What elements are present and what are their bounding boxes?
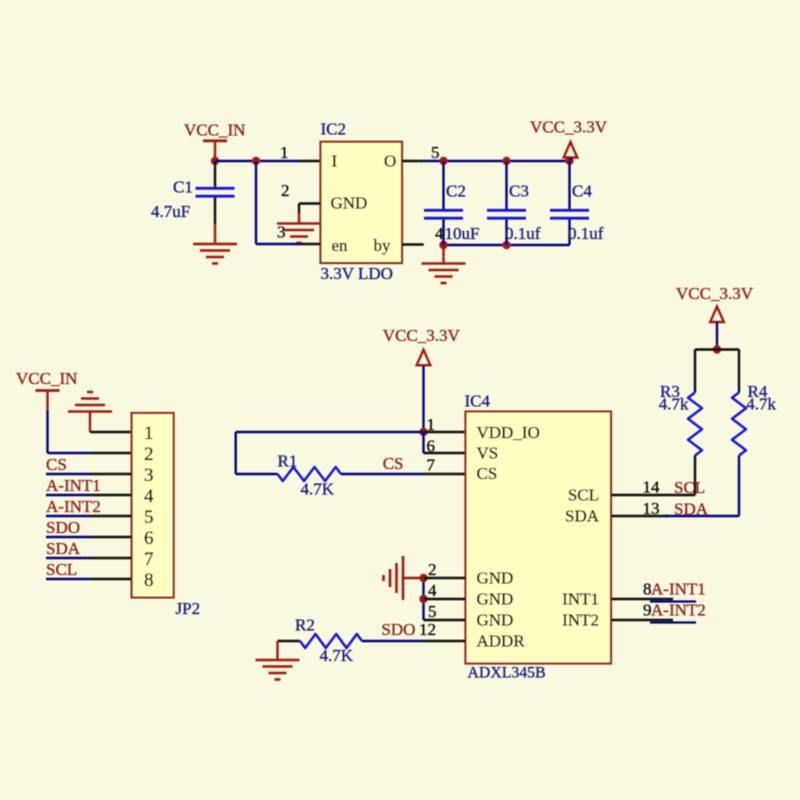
svg-text:4: 4 [144, 486, 154, 507]
svg-text:by: by [374, 236, 392, 255]
svg-text:0.1uf: 0.1uf [568, 224, 604, 243]
svg-text:CS: CS [46, 455, 67, 474]
svg-text:INT1: INT1 [562, 590, 599, 609]
svg-text:INT2: INT2 [562, 611, 599, 630]
svg-text:4.7K: 4.7K [301, 480, 335, 499]
svg-text:SCL: SCL [674, 478, 705, 497]
svg-text:0.1uf: 0.1uf [505, 224, 541, 243]
svg-text:1: 1 [427, 415, 436, 434]
svg-text:C4: C4 [572, 182, 592, 201]
svg-text:R2: R2 [295, 616, 315, 635]
svg-text:2: 2 [144, 444, 154, 465]
svg-text:JP2: JP2 [176, 599, 201, 618]
svg-text:3: 3 [277, 223, 286, 242]
svg-text:7: 7 [144, 549, 154, 570]
svg-text:GND: GND [477, 590, 514, 609]
svg-text:6: 6 [144, 528, 154, 549]
svg-text:7: 7 [427, 456, 436, 475]
svg-text:4: 4 [428, 581, 437, 600]
svg-text:ADXL345B: ADXL345B [468, 665, 546, 682]
svg-text:O: O [384, 152, 396, 171]
svg-text:ADDR: ADDR [477, 632, 526, 651]
svg-text:SDO: SDO [46, 518, 80, 537]
svg-text:C3: C3 [509, 182, 529, 201]
svg-text:SCL: SCL [568, 486, 599, 505]
svg-text:GND: GND [477, 569, 514, 588]
svg-text:VCC_3.3V: VCC_3.3V [383, 326, 461, 345]
svg-text:SDA: SDA [46, 539, 81, 558]
svg-text:1: 1 [144, 423, 154, 444]
svg-text:3.3V LDO: 3.3V LDO [321, 264, 393, 283]
svg-text:A-INT2: A-INT2 [46, 497, 101, 516]
svg-text:A-INT2: A-INT2 [651, 601, 706, 620]
svg-text:VCC_3.3V: VCC_3.3V [676, 284, 754, 303]
svg-text:1: 1 [280, 143, 289, 162]
svg-text:C2: C2 [446, 182, 466, 201]
svg-text:6: 6 [427, 437, 436, 456]
svg-text:VCC_IN: VCC_IN [184, 121, 245, 140]
svg-text:4.7uF: 4.7uF [151, 202, 190, 221]
svg-text:VCC_3.3V: VCC_3.3V [530, 118, 608, 137]
svg-text:SDA: SDA [674, 500, 709, 519]
svg-text:CS: CS [477, 464, 498, 483]
svg-text:IC4: IC4 [465, 392, 491, 411]
svg-text:SDA: SDA [565, 507, 600, 526]
svg-text:5: 5 [428, 602, 437, 621]
svg-text:VDD_IO: VDD_IO [477, 423, 540, 442]
svg-text:SCL: SCL [46, 560, 77, 579]
svg-text:SDO: SDO [381, 620, 415, 639]
svg-text:I: I [332, 152, 338, 171]
svg-text:CS: CS [383, 454, 404, 473]
svg-text:13: 13 [643, 499, 660, 518]
svg-text:4.7k: 4.7k [659, 395, 689, 414]
svg-text:VS: VS [477, 444, 499, 463]
svg-text:VCC_IN: VCC_IN [16, 369, 77, 388]
svg-text:GND: GND [477, 611, 514, 630]
svg-text:12: 12 [419, 620, 436, 639]
svg-text:10uF: 10uF [445, 224, 480, 243]
svg-text:A-INT1: A-INT1 [46, 476, 101, 495]
svg-text:C1: C1 [173, 178, 193, 197]
svg-text:5: 5 [431, 143, 440, 162]
svg-text:2: 2 [281, 181, 290, 200]
svg-text:R1: R1 [278, 452, 298, 471]
svg-text:3: 3 [144, 465, 154, 486]
svg-text:5: 5 [144, 507, 154, 528]
svg-text:8: 8 [144, 570, 154, 591]
svg-text:2: 2 [428, 560, 437, 579]
svg-text:4.7k: 4.7k [746, 395, 776, 414]
svg-text:GND: GND [331, 194, 368, 213]
svg-text:4.7K: 4.7K [320, 646, 354, 665]
svg-text:A-INT1: A-INT1 [651, 580, 706, 599]
svg-text:14: 14 [643, 478, 661, 497]
svg-text:IC2: IC2 [321, 120, 347, 139]
svg-text:en: en [332, 236, 349, 255]
